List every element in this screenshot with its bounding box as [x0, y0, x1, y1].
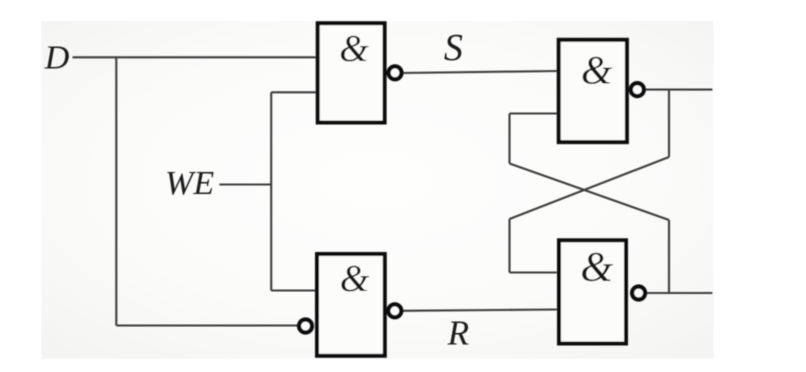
svg-text:S: S — [444, 27, 463, 69]
svg-text:R: R — [447, 314, 469, 353]
svg-text:&: & — [339, 28, 369, 70]
svg-text:WE: WE — [165, 165, 214, 202]
svg-text:&: & — [580, 245, 613, 291]
svg-text:&: & — [340, 258, 370, 300]
svg-text:&: & — [581, 48, 612, 93]
svg-text:D: D — [44, 40, 70, 77]
